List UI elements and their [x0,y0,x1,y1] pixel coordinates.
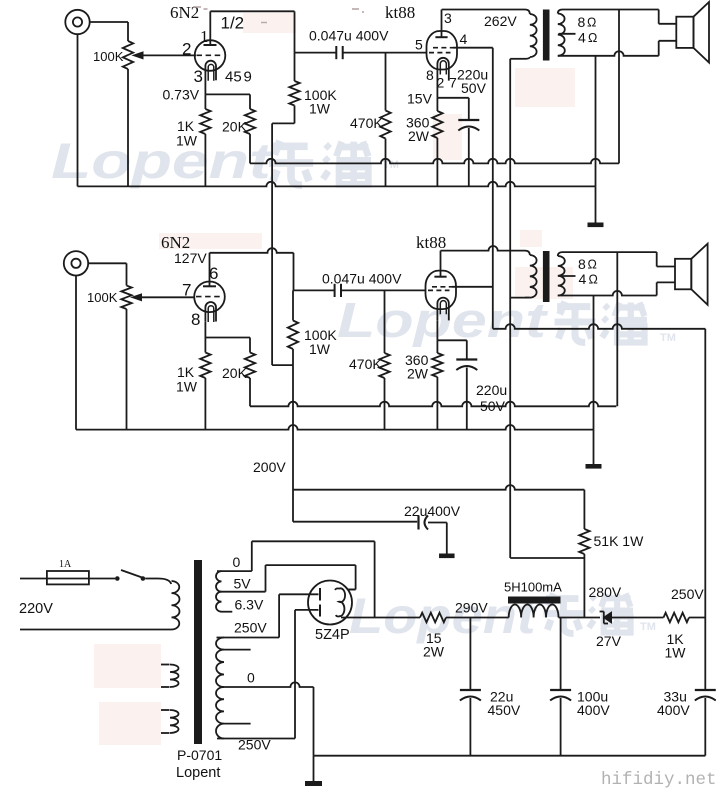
cap C7 100u 400V [560,618,562,691]
PT aux primary coil B [161,709,170,711]
coupling cap C1 0.047u 400V [295,52,337,54]
svg-text:1W: 1W [309,101,331,117]
svg-text:4: 4 [460,31,468,47]
svg-text:200V: 200V [253,459,286,475]
rectifier V5 5Z4P envelope [308,581,352,625]
wiper arrow VR2 [135,296,195,298]
svg-text:8: 8 [191,310,200,329]
svg-text:9: 9 [244,69,252,86]
svg-text:4: 4 [579,271,587,287]
svg-text:262V: 262V [484,13,517,29]
svg-text:6N2: 6N2 [170,3,199,22]
psu ground rail [314,755,706,757]
svg-text:5Z4P: 5Z4P [315,627,350,643]
svg-text:P-0701: P-0701 [177,747,222,763]
svg-text:100K: 100K [87,290,118,305]
ground symbol ch1 [595,186,597,222]
svg-text:400V: 400V [577,702,610,718]
tube V4 KT88 ch2 envelope [426,271,457,310]
svg-text:50V: 50V [461,80,487,96]
watermark pink boxes [243,13,296,33]
ground symbol ch2 [593,430,595,464]
200V line to 51K [293,485,584,490]
potentiometer VR2 100K [121,286,131,310]
HV stub tap upper [224,649,251,651]
resistor R14 1K 1W psu [664,613,690,623]
svg-text:50V: 50V [480,398,506,414]
cap C8 33u 400V [704,618,706,691]
svg-text:8: 8 [426,67,434,83]
resistor R2 1K 1W cathode [204,94,206,109]
switch S1 [115,576,120,581]
PT aux primary coil A [161,664,170,666]
input jack J1 [65,10,89,34]
tap 0 heater [217,570,252,572]
OPT1 primary [525,10,530,15]
svg-text:6: 6 [209,264,218,283]
V2 grid dashes [429,52,451,54]
svg-text:TM: TM [640,621,656,633]
psu ground symbol [313,756,315,781]
ground bus ch1 (line2) [78,182,596,187]
V4 cathode node [436,321,438,341]
svg-text:20K: 20K [222,119,248,135]
svg-text:290V: 290V [455,600,488,616]
tap 0 outer route [251,541,253,571]
svg-text:250V: 250V [671,586,704,602]
HV bottom tap 250V to plate2 [217,738,295,740]
svg-text:0: 0 [233,554,241,570]
OPT2 primary [525,251,530,255]
V3 cathode wire [204,322,206,338]
svg-text:2: 2 [182,40,191,59]
V1 plate wire to top rail [209,11,211,45]
V3 plate wire 127V [209,253,211,286]
speaker2 cone [691,244,707,305]
PT 5V winding (rectifier heater) [216,571,222,592]
screen bus vertical [492,48,494,329]
watermark Lopent bottom [349,589,538,645]
svg-text:1W: 1W [176,133,198,149]
V3 grid dashes [196,296,223,298]
svg-text:5V: 5V [234,576,252,592]
speaker1 connection box [658,10,660,24]
V1 cathode [205,61,216,81]
choke L1 5H100mA core bar [508,597,561,604]
V2 plate wire to OPT1 [441,10,443,38]
potentiometer VR1 100K [123,41,133,69]
watermark Lopent top [51,134,274,190]
HV top tap 250V to plate1 [217,637,280,639]
OPT2 core [543,251,550,302]
OPT2 secondary top lead [563,251,657,253]
svg-text:Ω: Ω [588,258,597,272]
svg-text:2W: 2W [423,644,445,660]
V2 cathode [437,58,448,81]
svg-text:280V: 280V [589,584,622,600]
wire jack1 to pot [89,21,128,23]
tube V1 6N2 (1/2) envelope [195,40,226,71]
fuse F1 1A [47,571,89,584]
resistor R10 470K ch2 [384,290,386,353]
OPT1 secondary top lead [563,9,659,11]
svg-text:100K: 100K [93,49,124,64]
junction from ch1 R4 [272,364,293,366]
svg-text:400V: 400V [657,702,690,718]
svg-text:1W: 1W [309,341,331,357]
svg-text:470K: 470K [350,115,383,131]
resistor R9 100K 1W ch2 plate load [292,290,294,320]
svg-text:Ω: Ω [587,16,596,30]
svg-text:22u400V: 22u400V [404,503,461,519]
svg-text:kt88: kt88 [385,3,415,22]
resistor R8 20K ch2 [249,338,251,353]
screen bus turn to right [493,324,706,329]
V5 filament [339,588,345,616]
svg-text:kt88: kt88 [416,233,446,252]
svg-text:2W: 2W [407,366,429,382]
resistor R12 51K 1W [579,529,589,554]
svg-text:TM: TM [660,332,676,344]
svg-text:Ω: Ω [588,31,597,45]
V5 plate 1 bar [319,588,321,601]
tap 6.3V stub [222,611,233,613]
wire jack1 ground drop [77,34,79,187]
V4 grid dashes [428,289,450,291]
svg-text:1A: 1A [59,559,72,570]
coupling cap C3 0.047u 400V ch2 [294,289,335,291]
svg-text:7: 7 [449,75,457,91]
svg-text:0.047u 400V: 0.047u 400V [322,271,402,287]
svg-text:5: 5 [415,37,423,53]
wire jack2 to pot [88,262,127,264]
V4 screen dashes [432,286,452,288]
svg-text:3: 3 [194,67,203,86]
choke L1 winding [509,605,559,618]
OPT2 secondary bottom lead [558,291,657,296]
resistor R3 20K [249,94,251,109]
V2 screen wire [453,47,493,49]
feedback line ch1 (line1) [250,159,619,164]
OPT2 4-ohm tap [559,275,576,277]
tube V3 6N2 ch2 envelope [194,282,225,313]
B+ link to 51K bottom [510,557,584,559]
V4 plate bar [434,276,446,278]
AC input top wire [20,578,47,580]
HV center tap 0 [223,682,314,687]
svg-text:4: 4 [578,29,586,45]
wire jack2 ground drop [75,275,77,430]
svg-text:5H100mA: 5H100mA [504,580,562,595]
filter cap C5 22u400V [293,521,417,523]
V1 grid dashes [197,54,224,56]
tap 5V [222,591,266,593]
long vertical to ch2 (200V feed upper) [271,123,273,365]
svg-text:51K 1W: 51K 1W [594,533,645,549]
cap C4 220u 50V ch2 [466,340,468,359]
svg-text:1/2: 1/2 [221,14,245,33]
OPT1 4-ohm tap [559,33,576,35]
svg-text:8: 8 [578,14,586,30]
svg-text:20K: 20K [222,365,248,381]
svg-text:220u: 220u [476,382,507,398]
OPT1 core [543,10,550,61]
svg-text:127V: 127V [174,250,207,266]
cap C6 22u 450V [469,618,471,691]
feedback line ch2 (lineA) [250,402,616,407]
speaker2 magnet [675,259,691,290]
resistor R6 360 2W [436,98,438,111]
svg-text:7: 7 [182,281,191,300]
resistor R5 470K grid leak KT88 [385,53,387,111]
svg-text:0.047u 400V: 0.047u 400V [309,28,389,44]
V3 cathode [205,302,216,322]
svg-text:Lopent: Lopent [176,765,220,781]
OPT1 secondary bottom lead [558,51,659,56]
svg-text:8: 8 [578,256,586,272]
ground bus ch2 (lineB) [76,425,594,430]
svg-text:2W: 2W [408,128,430,144]
200V drop vertical [292,365,294,522]
OPT2 secondary [558,252,563,256]
wire R4 bottom to 200V drop [272,122,294,124]
resistor R7 1K 1W ch2 [204,338,206,353]
svg-text:45: 45 [225,69,242,86]
svg-text:220V: 220V [19,601,53,617]
speaker1 cone [694,2,710,63]
resistor R13 15 2W [420,613,446,623]
svg-text:250V: 250V [234,620,267,636]
tube V2 KT88 ch1 envelope [427,31,458,70]
speaker2 connection box [656,252,658,266]
V5 plate 2 bar [319,605,321,617]
svg-text:Ω: Ω [589,273,598,287]
svg-text:hifidiy.net: hifidiy.net [601,770,716,790]
cathode node wire to 20K [205,93,250,95]
V3 plate bar [203,285,216,287]
V1 plate bar [204,44,217,46]
V5 filament top feed [348,589,356,591]
stray marks near kt88 [352,9,364,12]
5V route to filament [265,565,267,592]
svg-text:450V: 450V [488,702,521,718]
V2 cathode node [436,81,438,98]
speaker return vertical ch1 [595,56,597,187]
V2 screen dashes [433,47,453,49]
svg-text:15V: 15V [407,91,433,107]
svg-text:250V: 250V [238,737,271,753]
OPT1 secondary [558,10,563,14]
B+ vertical from OPT1 [509,59,511,558]
HV stub tap lower [224,723,251,725]
V2 plate bar [435,36,447,38]
V1 cathode wire [204,81,206,95]
speaker feedback vertical ch2 [616,252,618,406]
svg-text:1W: 1W [176,379,198,395]
PT primary winding [158,579,171,585]
resistor R11 360 2W ch2 [436,340,438,353]
svg-text:0.73V: 0.73V [163,87,200,103]
input jack J2 [64,251,88,275]
V4 screen wire [452,286,493,288]
speaker1 magnet [676,17,693,48]
V4 cathode [437,298,448,321]
ground symbol C5 [439,554,455,559]
wire fuse to switch [89,578,115,580]
PT core [194,560,202,744]
watermark Lopent middle [337,293,548,348]
svg-text:1W: 1W [665,645,687,661]
B+ output line [341,617,420,619]
cap C2 220u 50V [468,98,470,120]
svg-text:470K: 470K [349,356,382,372]
svg-text:27V: 27V [596,633,622,649]
zener D1 27V [604,612,612,622]
svg-text:0: 0 [247,670,255,686]
AC input bottom wire [20,629,172,631]
V4 plate wire to OPT2 [440,251,442,277]
speaker return vertical ch2 [593,296,595,430]
resistor R4 100K 1W plate load [294,53,296,81]
speaker feedback vertical ch1 [618,10,620,164]
wiper arrow VR1 [136,54,196,56]
PT HV winding 250-0-250 [216,638,224,650]
svg-text:Lopent: Lopent [51,134,274,190]
svg-text:6.3V: 6.3V [235,597,264,613]
svg-text:3: 3 [444,10,452,26]
svg-text:1: 1 [200,27,209,46]
